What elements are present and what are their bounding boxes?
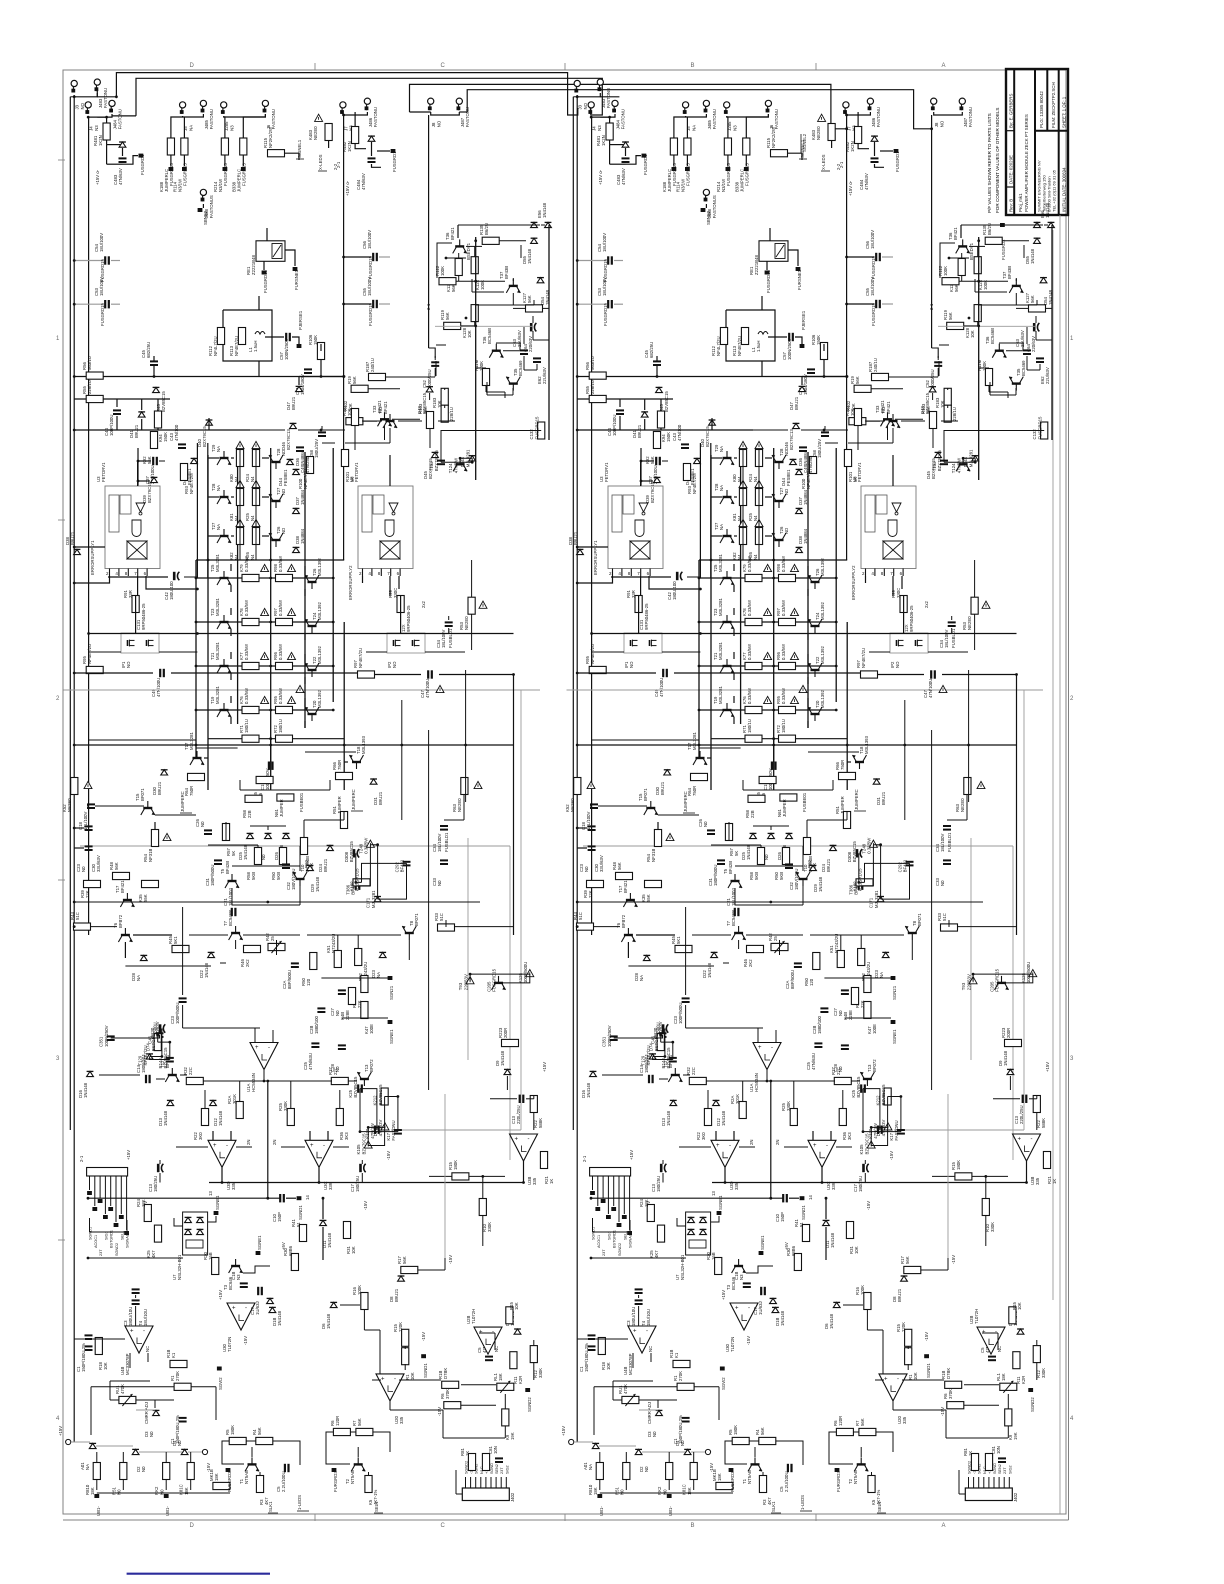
svg-text:Proj_mk1: Proj_mk1 <box>1018 193 1023 212</box>
svg-text:TEL +32 (0)11 69 31 05: TEL +32 (0)11 69 31 05 <box>1052 169 1057 212</box>
svg-text:C: C <box>441 1523 446 1529</box>
svg-text:INITIAL DATE: 300694: INITIAL DATE: 300694 <box>1062 167 1067 212</box>
svg-text:C: C <box>441 63 446 69</box>
svg-text:POWER AMPLIFIER MODULE ZECK PT: POWER AMPLIFIER MODULE ZECK PT SERIES <box>1024 114 1029 212</box>
svg-text:PLG: 13385 80042: PLG: 13385 80042 <box>1039 91 1044 128</box>
svg-text:B: B <box>691 63 695 69</box>
svg-text:D: D <box>190 1523 195 1529</box>
svg-text:A: A <box>942 63 946 69</box>
svg-text:SHEET: 1 OF: 1: SHEET: 1 OF: 1 <box>1062 96 1067 128</box>
svg-text:FILM: ZECKPTP2.SCH: FILM: ZECKPTP2.SCH <box>1051 82 1056 128</box>
svg-text:D: D <box>190 63 195 69</box>
svg-text:FOR COMPONENT VALUES OF OTHER: FOR COMPONENT VALUES OF OTHER MODELS <box>995 108 1000 214</box>
svg-text:By: E. GERBERS: By: E. GERBERS <box>1009 94 1014 128</box>
svg-text:P/F VALUES SHOWN REFER TO PART: P/F VALUES SHOWN REFER TO PARTS LISTS <box>987 113 992 213</box>
svg-text:B: B <box>691 1523 695 1529</box>
svg-text:DATE: 02029E: DATE: 02029E <box>1009 155 1014 184</box>
svg-text:A: A <box>942 1523 946 1529</box>
svg-text:Rev: B: Rev: B <box>1009 199 1014 212</box>
